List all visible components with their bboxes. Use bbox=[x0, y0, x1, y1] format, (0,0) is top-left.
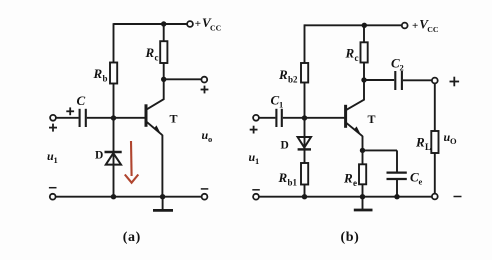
node diode bottom a bbox=[111, 194, 116, 199]
label C1 bbox=[271, 93, 284, 110]
label u1 a bbox=[47, 149, 58, 165]
wire left branch upper b bbox=[304, 24, 306, 63]
label minus bottom-left a bbox=[49, 187, 57, 189]
wire output to RL bbox=[434, 83, 436, 131]
label uo b bbox=[444, 130, 458, 146]
node Ce bottom b bbox=[394, 194, 399, 199]
svg-text:c: c bbox=[355, 53, 359, 63]
svg-text:R: R bbox=[415, 135, 425, 150]
wire emitter node to Ce branch bbox=[363, 149, 398, 151]
wire top rail b bbox=[305, 24, 402, 26]
svg-text:1: 1 bbox=[279, 100, 283, 110]
label Rb2 bbox=[278, 67, 298, 85]
label + output b bbox=[450, 77, 460, 87]
terminal input b bbox=[253, 115, 259, 121]
label minus bottom-right a bbox=[201, 188, 209, 190]
svg-text:R: R bbox=[145, 45, 155, 60]
diode D b bbox=[298, 137, 311, 149]
transistor T a bbox=[146, 79, 164, 135]
node emitter b bbox=[360, 148, 365, 153]
svg-text:o: o bbox=[208, 134, 212, 144]
wire collector to output terminal a bbox=[164, 78, 202, 80]
wire emitter down to node b bbox=[362, 136, 364, 151]
capacitor Ce bbox=[387, 173, 407, 179]
svg-text:+: + bbox=[412, 20, 418, 32]
label Rc b bbox=[345, 46, 359, 64]
svg-text:CC: CC bbox=[210, 24, 222, 33]
svg-text:T: T bbox=[368, 112, 376, 126]
svg-text:CC: CC bbox=[427, 25, 439, 34]
resistor Rc a bbox=[160, 24, 167, 79]
svg-text:R: R bbox=[93, 66, 103, 81]
wire input to capacitor a bbox=[56, 117, 79, 119]
svg-text:(a): (a) bbox=[123, 230, 141, 245]
label Rb bbox=[93, 66, 108, 84]
svg-text:b1: b1 bbox=[288, 178, 298, 188]
terminal bottom-right b bbox=[432, 194, 438, 200]
label C2 bbox=[391, 56, 404, 73]
ground a bbox=[153, 197, 173, 211]
svg-text:+: + bbox=[195, 18, 201, 30]
svg-text:1: 1 bbox=[255, 156, 259, 166]
svg-text:(b): (b) bbox=[341, 230, 360, 245]
svg-text:R: R bbox=[278, 170, 288, 185]
wire bottom rail b bbox=[259, 196, 432, 198]
transistor T b bbox=[346, 80, 364, 136]
node top rail junction b bbox=[362, 23, 367, 28]
capacitor C1 bbox=[276, 109, 281, 127]
label Ce bbox=[410, 170, 423, 187]
node base b bbox=[302, 115, 307, 120]
node collector b bbox=[361, 77, 366, 82]
label + output a bbox=[201, 86, 209, 94]
terminal +Vcc a bbox=[187, 21, 193, 27]
svg-text:T: T bbox=[170, 112, 178, 126]
svg-text:b: b bbox=[103, 74, 108, 84]
svg-text:b2: b2 bbox=[288, 75, 298, 85]
svg-text:C: C bbox=[77, 93, 86, 108]
label minus bottom-right b bbox=[454, 196, 462, 198]
wire base node down through diode to Rb1 b bbox=[304, 118, 306, 163]
label uo a bbox=[202, 128, 213, 144]
node collector a bbox=[161, 77, 166, 82]
node base a bbox=[111, 115, 116, 120]
diode D a bbox=[105, 152, 122, 165]
capacitor C2 bbox=[395, 71, 402, 90]
label Rc a bbox=[145, 45, 159, 63]
wire top rail a bbox=[114, 23, 187, 25]
svg-text:D: D bbox=[281, 140, 289, 152]
terminal bottom-left a bbox=[50, 194, 56, 200]
node emitter bottom a bbox=[160, 194, 165, 199]
terminal bottom-left b bbox=[253, 194, 259, 200]
wire RL to bottom terminal b bbox=[434, 153, 436, 194]
svg-text:e: e bbox=[353, 178, 357, 188]
wire Ce upper bbox=[396, 150, 398, 171]
svg-text:O: O bbox=[450, 136, 457, 146]
terminal +Vcc b bbox=[402, 23, 408, 29]
wire collector to C2 bbox=[364, 79, 394, 81]
label +Vcc a bbox=[195, 15, 222, 33]
label +Vcc b bbox=[412, 17, 439, 34]
resistor Rb1 bbox=[301, 163, 308, 185]
svg-text:R: R bbox=[343, 171, 353, 186]
node top rail junction a bbox=[161, 21, 166, 26]
wire input to C1 bbox=[259, 117, 276, 119]
label Rb1 bbox=[278, 170, 298, 188]
resistor Rb bbox=[110, 63, 117, 84]
wire Ce lower bbox=[396, 180, 398, 197]
resistor RL bbox=[431, 131, 438, 153]
terminal input a bbox=[50, 115, 56, 121]
red arrow a bbox=[125, 141, 139, 183]
wire left branch upper a bbox=[113, 23, 115, 62]
label + input a bbox=[49, 124, 57, 132]
wire Rb2 to base node b bbox=[304, 83, 306, 119]
svg-text:c: c bbox=[155, 53, 159, 63]
svg-text:2: 2 bbox=[400, 63, 404, 73]
label Re bbox=[343, 171, 357, 189]
label minus bottom-left b bbox=[252, 189, 259, 191]
terminal bottom-right a bbox=[202, 194, 208, 200]
svg-text:L: L bbox=[425, 142, 431, 152]
resistor Re bbox=[359, 150, 366, 196]
label u1 b bbox=[249, 150, 260, 166]
node Rb1 bottom b bbox=[302, 194, 307, 199]
wire capacitor to base bar a bbox=[87, 117, 145, 119]
label + above capacitor a bbox=[66, 107, 74, 115]
svg-text:R: R bbox=[278, 67, 288, 82]
label + input b bbox=[250, 126, 258, 134]
resistor Rc b bbox=[361, 25, 368, 80]
wire C1 to base bar b bbox=[283, 117, 345, 119]
wire Rb to base node a bbox=[113, 84, 115, 119]
svg-text:R: R bbox=[345, 46, 355, 61]
wire Rb1 to bottom rail b bbox=[304, 185, 306, 197]
wire base node to bottom rail a bbox=[113, 118, 115, 197]
node Re bottom b bbox=[360, 194, 365, 199]
wire emitter down a bbox=[161, 135, 163, 197]
resistor Rb2 bbox=[301, 63, 308, 83]
svg-text:1: 1 bbox=[54, 155, 58, 165]
terminal output + a bbox=[201, 77, 207, 83]
label RL bbox=[415, 135, 431, 153]
wire bottom rail a bbox=[56, 196, 202, 198]
terminal output + b bbox=[432, 78, 438, 84]
wire C2 to output terminal b bbox=[403, 79, 432, 81]
svg-text:D: D bbox=[95, 150, 103, 162]
svg-text:e: e bbox=[419, 177, 423, 187]
capacitor C a bbox=[80, 109, 86, 127]
ground b bbox=[354, 197, 373, 210]
